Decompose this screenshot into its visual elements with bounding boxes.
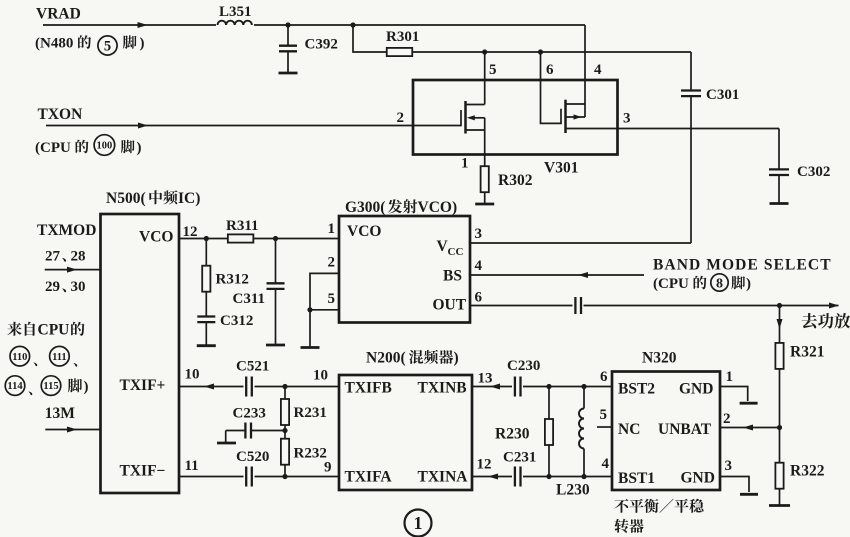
label CPU pin 114 [5,376,25,396]
svg-text:N320: N320 [642,350,677,367]
svg-text:1: 1 [414,513,423,533]
junction dot R231 [282,384,287,389]
svg-text:2: 2 [397,110,405,126]
wire pin 4 from VRAD rail [584,25,586,117]
inductor L351 [216,19,254,30]
svg-text:IC): IC) [178,190,200,207]
svg-text:29: 29 [45,279,60,295]
svg-text:1: 1 [461,156,469,172]
svg-text:BST2: BST2 [618,381,655,398]
ground at pin 3 [740,493,758,496]
svg-text:115: 115 [43,381,58,392]
junction dot C311 [273,236,278,241]
svg-text:GND: GND [679,381,713,398]
capacitor C392 [287,25,289,46]
svg-text:12: 12 [183,224,198,240]
capacitor C231 [512,467,523,486]
svg-text:R311: R311 [226,218,259,234]
svg-text:R322: R322 [790,463,825,480]
svg-text:GND: GND [681,470,715,487]
svg-text:(CPU: (CPU [653,276,689,292]
svg-text:9: 9 [324,460,332,476]
svg-text:BS: BS [443,268,462,285]
svg-text:5: 5 [489,62,497,78]
svg-text:6: 6 [546,62,554,78]
svg-text:C311: C311 [233,291,266,307]
svg-text:TXIFB: TXIFB [345,380,392,397]
svg-text:TXINA: TXINA [418,469,469,486]
svg-text:TXIF+: TXIF+ [120,377,166,394]
svg-text:30: 30 [71,279,86,295]
svg-text:CC: CC [448,246,464,258]
junction dot L230 top [581,384,586,389]
ground under G300 pins 2 5 [309,310,311,348]
svg-text:L351: L351 [219,4,252,20]
label CPU pin 115 [41,376,61,396]
wire pin 1 GND [720,387,748,402]
svg-text:C230: C230 [507,358,540,374]
svg-text:C521: C521 [236,359,269,375]
svg-text:C520: C520 [236,449,269,465]
wire down to R321 [779,306,781,344]
svg-text:5: 5 [600,407,608,423]
wire pin 3 GND [720,477,749,493]
svg-text:C312: C312 [220,313,253,329]
wire R321 to R322 [779,369,781,463]
capacitor C301 [690,52,692,90]
svg-text:TXON: TXON [38,106,83,123]
junction dot R230 top [546,384,551,389]
wire G300 pin 3 Vcc [470,242,691,244]
svg-text:R231: R231 [294,405,327,421]
resistor R230 [548,387,550,420]
capacitor C521 [244,377,255,396]
wire UNBAT to divider [720,427,780,429]
svg-text:VCO: VCO [347,223,381,240]
svg-text:8: 8 [716,276,723,291]
svg-text:C233: C233 [233,406,266,422]
svg-text:C301: C301 [706,87,739,103]
junction dot pin5 ground [307,307,312,312]
svg-text:): ) [746,276,751,292]
IC G300 box [339,216,470,323]
svg-text:VRAD: VRAD [36,6,81,23]
resistor R321 [775,343,783,369]
svg-text:R302: R302 [498,172,533,189]
junction dot pin6 [538,49,543,54]
label balun line 2 [614,519,643,533]
svg-text:6: 6 [475,290,483,306]
svg-text:3: 3 [623,111,631,127]
svg-text:TXIFA: TXIFA [345,469,393,486]
svg-text:4: 4 [475,258,483,274]
wire N500 pin 11 to N200 pin 9 [179,476,339,478]
svg-text:R321: R321 [790,344,824,361]
svg-text:1: 1 [726,369,734,385]
label CPU pin 110 [10,346,30,366]
svg-text:114: 114 [7,381,23,392]
resistor R231 [284,387,286,399]
svg-text:10: 10 [185,367,200,383]
svg-text:G300(: G300( [345,199,385,216]
junction dot L230 bottom [581,474,586,479]
label to power amplifier [802,313,850,329]
capacitor C230 [512,377,523,396]
junction dot R312 [204,236,209,241]
svg-text:OUT: OUT [433,297,467,314]
inductor L230 [583,387,585,409]
wire pin 5 to drain [484,52,486,105]
wire VRAD top rail [43,24,585,26]
svg-text:): ) [140,36,145,52]
svg-text:13: 13 [478,371,493,387]
svg-text:C231: C231 [503,450,536,466]
svg-text:28: 28 [71,249,86,265]
IC N200 box [339,375,472,490]
figure number 1 [405,510,432,537]
svg-text:CPU: CPU [38,322,70,339]
svg-text:R230: R230 [495,426,530,443]
junction dot at C392 [285,22,290,27]
svg-text:VCO: VCO [139,229,173,246]
svg-text:): ) [84,379,89,395]
capacitor C302 [778,129,780,170]
transistor Q2 source arrow [566,116,586,118]
wire TXMOD into N500 [45,269,101,271]
IC N500 box [101,214,180,493]
capacitor C233 [251,430,285,432]
pin 2 wire [310,273,339,309]
svg-text:(CPU: (CPU [35,140,71,156]
wire TXON to pin 2 [46,125,413,127]
svg-text:3: 3 [475,226,483,242]
svg-text:111: 111 [52,352,67,363]
ground under C311 [266,344,285,347]
svg-text:N500(: N500( [106,190,146,207]
svg-text:4: 4 [594,62,602,78]
transistor Q2 right FET of V301 [564,100,567,133]
transistor Q1 left FET of V301 [413,125,461,127]
svg-text:TXINB: TXINB [418,380,467,397]
label CPU pin 111 [50,346,70,366]
svg-text:10: 10 [313,368,328,384]
junction dot to R301 branch [350,22,355,27]
NC stub pin 5 [597,426,612,428]
svg-text:C392: C392 [305,37,338,53]
capacitor C312 [205,291,207,317]
label balun line 1 [614,499,703,513]
wire to R301 [353,25,387,52]
junction dot pin5 [482,49,487,54]
svg-text:11: 11 [185,458,199,474]
svg-text:5: 5 [328,291,336,307]
svg-text:6: 6 [600,369,608,385]
transistor pair box V301 [413,80,618,155]
pin 5 wire [310,309,339,311]
svg-text:100: 100 [97,141,113,152]
junction dot OUT divider [777,303,782,308]
svg-text:): ) [137,140,142,156]
wire N200 pin 12 to N320 BST1 [472,476,612,478]
svg-text:BST1: BST1 [618,470,655,487]
coupling capacitor on OUT [573,296,584,315]
svg-text:BAND MODE SELECT: BAND MODE SELECT [653,257,832,274]
svg-text:V301: V301 [544,160,578,177]
wire 13M into N500 [45,429,100,431]
svg-text:1: 1 [328,221,336,237]
svg-text:R232: R232 [294,446,327,462]
resistor R232 [281,439,289,465]
wire N200 pin 13 to N320 BST2 [472,386,612,388]
wire R232 to pin 11 rail [284,465,286,477]
wire pin 3 output of V301 [566,128,780,130]
svg-text:N200(: N200( [366,350,406,367]
resistor R301 [387,51,691,53]
resistor R322 [775,463,783,489]
svg-text:110: 110 [12,352,27,363]
svg-text:3: 3 [725,458,733,474]
svg-text:VCO): VCO) [418,199,458,216]
svg-text:R312: R312 [216,272,249,288]
wire pin 6 gate of Q2 [541,52,562,123]
svg-text:TXMOD: TXMOD [37,222,96,239]
svg-text:NC: NC [618,421,640,438]
svg-text:): ) [454,350,459,367]
junction dot on pin 11 rail [282,474,287,479]
wire G300 pin 4 BS band select [470,274,644,276]
resistor R312 [205,239,207,267]
junction dot R230 bottom [546,474,551,479]
svg-text:L230: L230 [556,482,590,499]
wire G300 pin 6 OUT [470,305,839,307]
svg-text:(N480: (N480 [35,36,73,52]
svg-text:13M: 13M [45,405,75,422]
svg-text:TXIF−: TXIF− [120,463,166,480]
resistor R302 [481,166,489,192]
svg-text:2: 2 [328,255,336,271]
ground under R322 [779,489,781,506]
svg-text:R301: R301 [386,29,419,45]
IC N320 box [612,372,720,491]
resistor R311 [228,234,254,242]
junction dot UNBAT [777,425,782,430]
svg-text:C302: C302 [797,164,830,180]
svg-text:27: 27 [45,249,61,265]
svg-text:2: 2 [723,411,731,427]
capacitor C311 [275,239,277,284]
ground at C233 [225,431,227,444]
svg-text:UNBAT: UNBAT [658,421,712,438]
ground under C312 [197,344,216,347]
wire N500 pin 12 to G300 pin 1 [179,238,339,240]
svg-text:4: 4 [602,456,610,472]
ground under R302 [475,203,494,206]
arrow to power amp [829,303,839,309]
ground at pin 1 [740,402,758,405]
wire R231 to R232 [284,426,286,439]
svg-text:5: 5 [104,38,111,54]
junction dot C233 [282,428,287,433]
capacitor C520 [244,467,255,486]
wire N500 pin 10 to N200 pin 10 [179,386,339,388]
label from CPU [7,322,35,336]
svg-text:12: 12 [477,457,492,473]
